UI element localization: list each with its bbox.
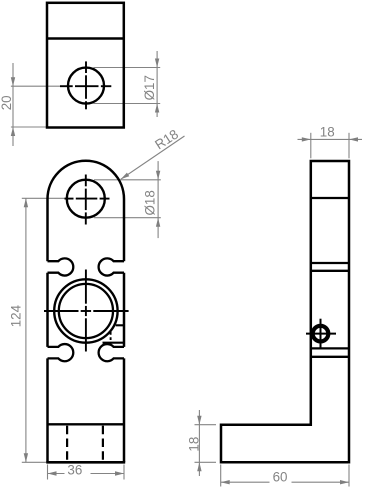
dimension 124 arrow bottom [24,453,28,462]
dimension Ø17 arrow top [155,59,159,68]
notch bottom-right [99,344,124,361]
dimension 60 extension lines [221,465,349,487]
svg-text:Ø17: Ø17 [142,75,157,100]
side hole centerline [306,319,336,349]
notch top-right [99,258,124,275]
dimension Ø17 arrow bottom [155,104,159,113]
dimension 36 dim line [48,473,125,475]
dimension 60 dim line [221,481,349,483]
svg-text:36: 36 [67,463,82,478]
side view slot edge line y356 [311,356,349,358]
dimension 18 top extension lines [311,133,349,159]
side view outline [221,161,349,462]
dimension Ø18 dim line [157,161,159,238]
side view slot edge line y270 [311,270,349,272]
dimension 124 arrow top [24,198,28,207]
notch top-left [48,258,74,275]
dimension Ø18 arrow bottom [156,218,160,227]
dimension R18 arrow [121,173,130,180]
side hole projection line top [116,324,124,326]
dimension Ø17 extension lines [94,68,161,104]
side hole projection line bottom [103,342,125,344]
side view slot edge line y263 [311,262,349,264]
big bore centerline vertical [85,270,87,352]
top view outline [47,3,124,128]
dimension 36 arrow left [48,471,57,475]
hidden slot line left [66,426,68,461]
dimension 20 extension lines [11,86,66,127]
svg-text:18: 18 [186,437,201,452]
dimension R18 leader [121,136,185,179]
dimension 18 top arrow left [302,137,311,141]
hole Ø18 [67,180,105,218]
hidden line vertical [110,332,112,347]
big bore outer circle [54,279,117,342]
dimension Ø18 extension lines [94,180,161,218]
svg-text:60: 60 [273,469,288,484]
dimension 18 left arrow bottom [197,462,201,471]
front view top arc [48,161,125,199]
front view left edge [46,199,49,462]
dimension 60 arrow left [221,480,230,484]
hole Ø17 centerline horizontal [60,85,111,87]
svg-text:124: 124 [8,304,23,327]
dimension 18 left arrow top [197,416,201,425]
hole Ø18 centerline vertical [85,175,87,225]
dimension 124 dim line [25,198,27,462]
dimension 20 arrow top [11,77,15,86]
dimension 20 dim line [12,63,14,146]
svg-text:20: 20 [0,95,14,110]
hole Ø17 centerline vertical [85,61,87,109]
hole Ø17 [68,68,104,104]
hidden slot line right [102,426,104,461]
big bore inner circle [59,284,113,338]
side view slot edge line y348 [311,347,349,349]
dimension Ø17 dim line [156,51,158,117]
dimension 18 top dim line [298,138,363,140]
front view right edge [123,199,126,462]
dimension 36 arrow right [115,471,124,475]
dimension 18 left extension lines [195,425,217,463]
svg-text:Ø18: Ø18 [143,190,158,215]
top view edge line [47,37,124,40]
front view base top edge [48,423,125,425]
front view bottom edge [46,461,125,464]
notch bottom-left [48,344,74,361]
side hole [313,326,329,342]
dimension 124 extension lines [22,198,66,462]
dimension 18 left dim line [198,410,200,476]
svg-text:18: 18 [320,124,335,139]
dimension Ø18 arrow top [156,171,160,180]
hole Ø18 centerline horizontal [65,198,110,200]
dimension 60 arrow right [340,480,349,484]
dimension 18 top arrow right [349,137,358,141]
side view edge line y198 [311,197,349,199]
big bore centerline horizontal [44,310,129,312]
dimension 20 arrow bottom [11,127,15,136]
dimension 36 extension lines [48,465,125,480]
